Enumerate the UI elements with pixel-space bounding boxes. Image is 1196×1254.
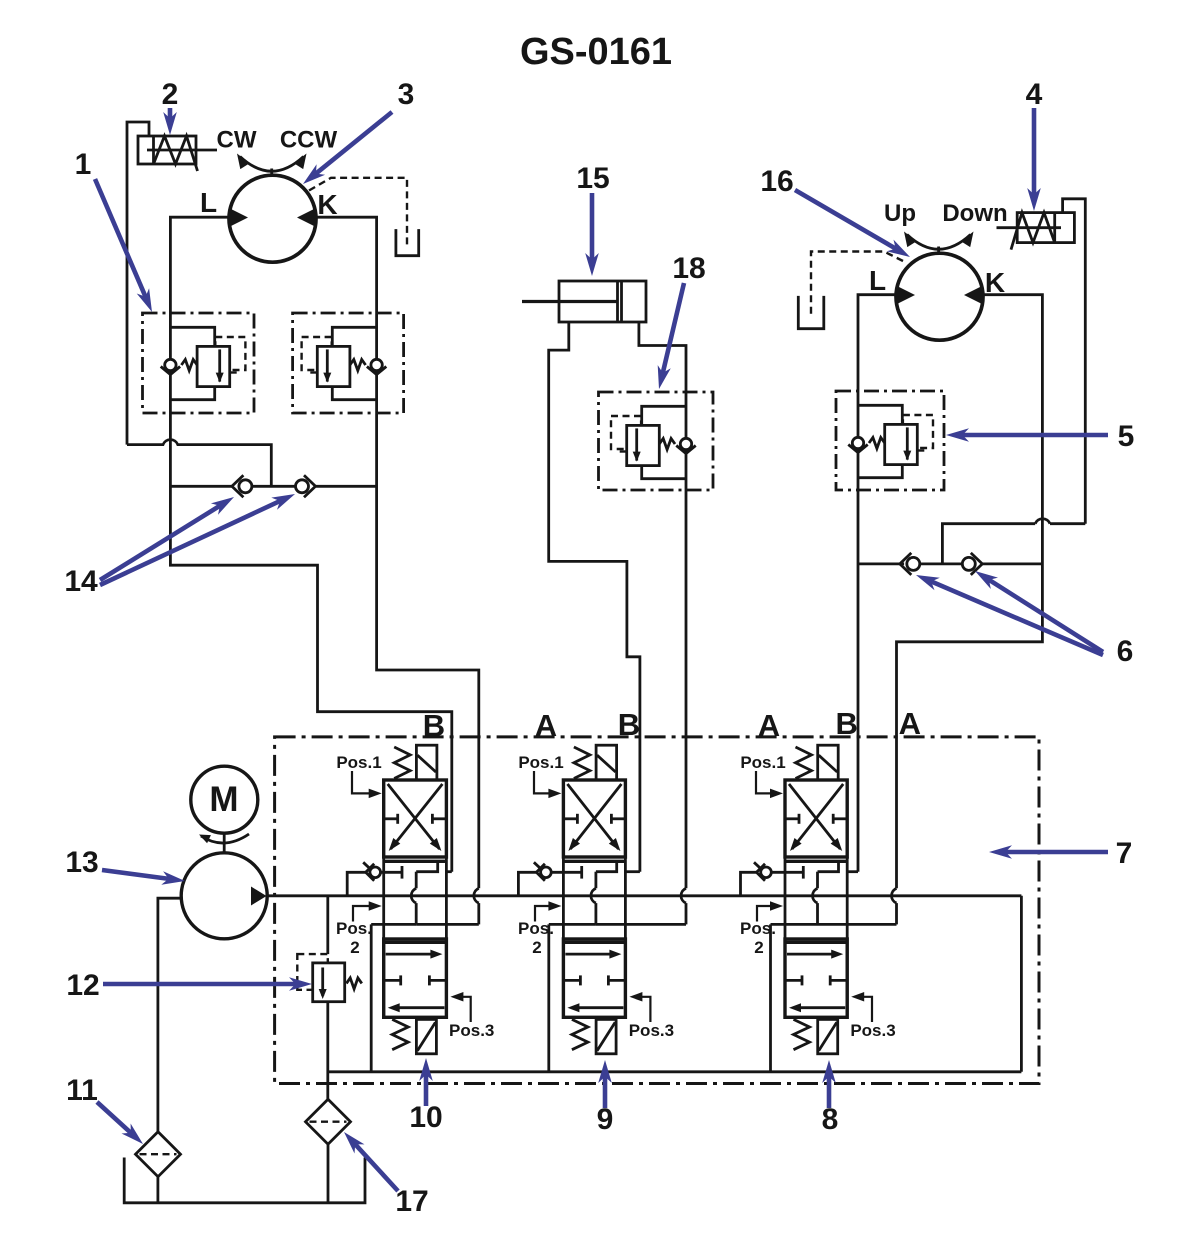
valve DV1 pilot check valve bbox=[347, 862, 402, 896]
svg-text:2: 2 bbox=[532, 938, 541, 957]
filter 17 bbox=[306, 1099, 351, 1144]
svg-text:Pos.3: Pos.3 bbox=[850, 1021, 895, 1040]
valve DV2 wire hop over bus bbox=[681, 888, 686, 924]
wire filter 11 to tank bbox=[156, 1177, 159, 1203]
valve DV1 solenoid (top) bbox=[416, 745, 437, 780]
motor 1 case drain (dashed) bbox=[309, 178, 407, 248]
wire left edge to makeup tee bbox=[127, 440, 271, 487]
motor 1 shaft stem bbox=[270, 169, 273, 177]
svg-text:17: 17 bbox=[395, 1185, 428, 1218]
relief valve 1a (L side) bbox=[161, 327, 246, 399]
svg-text:A: A bbox=[899, 706, 921, 741]
svg-text:16: 16 bbox=[760, 165, 793, 198]
shaft rotation arrow bbox=[199, 834, 249, 843]
label 15 bbox=[576, 162, 609, 195]
svg-text:GS-0161: GS-0161 bbox=[520, 31, 672, 73]
valve DV3 pilot check valve bbox=[741, 862, 804, 896]
label 12 bbox=[66, 969, 99, 1002]
label A port DV3 bbox=[899, 706, 921, 741]
check valve 14a bbox=[232, 475, 252, 497]
svg-text:12: 12 bbox=[66, 969, 99, 1002]
valve DV1 spring (bottom) bbox=[392, 1019, 408, 1049]
svg-text:4: 4 bbox=[1026, 78, 1043, 111]
valve DV1 wire hop over bus bbox=[474, 888, 479, 924]
relief valve 18 boundary (dash-dot) bbox=[599, 392, 714, 490]
pressure bus return leg bbox=[1020, 896, 1023, 1072]
relief 12 pilot box (dashed) bbox=[297, 954, 328, 990]
arrow to 17 bbox=[344, 1132, 398, 1191]
reservoir tank bbox=[124, 1158, 365, 1203]
hydraulic pump 13 bbox=[181, 853, 267, 939]
valve DV1 Pos.3 envelope bbox=[384, 939, 447, 1017]
label 6 bbox=[1117, 635, 1134, 668]
wire solenoid 4 drain bbox=[1063, 199, 1086, 524]
svg-text:A: A bbox=[535, 708, 557, 743]
svg-text:Pos.3: Pos.3 bbox=[449, 1021, 494, 1040]
valve DV3 wire hop over bus bbox=[892, 888, 897, 924]
label B port DV3 bbox=[836, 706, 858, 741]
wire check 6b to K line bbox=[983, 563, 1043, 566]
svg-text:Up: Up bbox=[884, 200, 916, 227]
valve DV3 Pos.3 flow arrows and marks bbox=[785, 950, 847, 1013]
svg-text:A: A bbox=[758, 708, 780, 743]
pump shaft bbox=[223, 833, 226, 852]
valve DV2 spring (bottom) bbox=[572, 1019, 588, 1049]
svg-text:2: 2 bbox=[754, 938, 763, 957]
relief valve block 1 right boundary (dash-dot) bbox=[293, 313, 404, 413]
label 10 bbox=[409, 1101, 442, 1134]
arrow to 16 bbox=[795, 190, 910, 257]
valve DV2 Pos.3 flow arrows and marks bbox=[563, 950, 625, 1013]
check valve 14b bbox=[296, 475, 316, 497]
valve DV1 internal passage Pos.2 bbox=[411, 861, 437, 924]
valve DV3 spring (bottom) bbox=[794, 1019, 810, 1049]
svg-text:Pos.3: Pos.3 bbox=[629, 1021, 674, 1040]
valve DV3 drain line to tank bus bbox=[771, 924, 897, 1071]
wire motor1 K port to valve DV1 bbox=[315, 217, 479, 888]
tank symbol T2 bbox=[798, 296, 824, 329]
svg-text:Down: Down bbox=[942, 200, 1007, 227]
solenoid valve 2 (motor 1 control) bbox=[138, 136, 217, 171]
valve DV3 solenoid (bottom) bbox=[818, 1019, 838, 1053]
wire motor2 K port to valve DV3 bbox=[897, 295, 1043, 889]
motor 2 case drain (dashed) bbox=[811, 252, 903, 316]
label B port DV1 bbox=[423, 708, 445, 743]
svg-text:CW: CW bbox=[217, 127, 257, 154]
svg-text:7: 7 bbox=[1116, 837, 1133, 870]
label CCW bbox=[280, 127, 338, 154]
wire cylinder head end to valve DV2 B bbox=[549, 322, 640, 872]
svg-text:CCW: CCW bbox=[280, 127, 338, 154]
arrow to 7 bbox=[989, 845, 1108, 859]
valve DV1 Pos.3 flow arrows and marks bbox=[384, 950, 447, 1013]
relief valve 1b (K side) bbox=[302, 327, 387, 399]
wire hop over K line (6 area) bbox=[1035, 519, 1050, 524]
wire between check valves 6 bbox=[920, 563, 961, 566]
valve DV3 closed port marks Pos.1 bbox=[785, 814, 847, 824]
hydraulic cylinder 15 bbox=[522, 281, 646, 322]
filter 11 bbox=[136, 1132, 181, 1177]
svg-text:3: 3 bbox=[398, 78, 415, 111]
valve DV1 crossed flow arrows bbox=[388, 784, 443, 851]
svg-text:Pos.1: Pos.1 bbox=[518, 753, 563, 772]
check valve 6b bbox=[962, 553, 982, 575]
svg-text:11: 11 bbox=[66, 1074, 98, 1107]
arrow to 14 (check 14b) bbox=[100, 494, 295, 585]
valve DV1 drain line to tank bus bbox=[371, 924, 479, 1071]
arrow to 2 bbox=[163, 108, 177, 135]
svg-text:14: 14 bbox=[64, 565, 98, 598]
label Down bbox=[942, 200, 1007, 227]
motor 2 port K triangle bbox=[964, 286, 982, 304]
arrow to 11 bbox=[97, 1102, 143, 1144]
svg-text:15: 15 bbox=[576, 162, 609, 195]
svg-text:L: L bbox=[869, 265, 886, 296]
arrow to 12 bbox=[103, 977, 312, 991]
label L motor 2 bbox=[869, 265, 886, 296]
valve DV2 solenoid (bottom) bbox=[596, 1019, 616, 1053]
relief valve block 1 boundary (dash-dot) bbox=[143, 313, 255, 413]
valve DV3 Pos.1 envelope bbox=[785, 780, 847, 861]
relief valve 5 boundary (dash-dot) bbox=[836, 391, 944, 490]
svg-text:B: B bbox=[423, 708, 445, 743]
svg-text:2: 2 bbox=[162, 78, 179, 111]
valve DV2 pilot check valve bbox=[518, 862, 581, 896]
wire between check valves 14 bbox=[253, 485, 295, 488]
label 13 bbox=[65, 846, 98, 879]
label 2 bbox=[162, 78, 179, 111]
svg-text:18: 18 bbox=[672, 252, 705, 285]
valve DV1 closed port marks Pos.1 bbox=[384, 814, 447, 824]
electric motor M bbox=[191, 766, 258, 833]
label 1 bbox=[75, 148, 92, 181]
label 14 bbox=[64, 565, 98, 598]
arrow to 18 bbox=[658, 283, 684, 389]
pressure bus from pump bbox=[267, 894, 1022, 897]
label A port DV1 bbox=[535, 708, 557, 743]
valve DV3 spring (top) bbox=[796, 747, 812, 779]
wire makeup line 6 left bbox=[858, 563, 904, 566]
svg-text:6: 6 bbox=[1117, 635, 1134, 668]
valve DV3 labels Pos.1 Pos.2 Pos.3 bbox=[740, 753, 896, 1040]
valve manifold boundary 7 (dash-dot) bbox=[275, 737, 1039, 1084]
svg-text:13: 13 bbox=[65, 846, 98, 879]
valve DV1 labels Pos.1 Pos.2 Pos.3 bbox=[336, 753, 494, 1040]
valve DV2 internal passage Pos.2 bbox=[591, 861, 617, 924]
wire cylinder rod end to valve DV2 bbox=[639, 322, 686, 888]
solenoid valve 4 (motor 2 control) bbox=[997, 213, 1075, 250]
relief valve 18 bbox=[611, 406, 696, 478]
valve DV1 wire B port connect bbox=[446, 870, 451, 873]
arrow to 14 (check 14a) bbox=[100, 497, 234, 580]
arrow to 15 bbox=[585, 193, 599, 276]
label Up bbox=[884, 200, 916, 227]
label 8 bbox=[822, 1103, 839, 1136]
label 11 bbox=[66, 1074, 98, 1107]
valve DV2 crossed flow arrows bbox=[567, 784, 621, 851]
label 7 bbox=[1116, 837, 1133, 870]
arrow to 10 bbox=[419, 1058, 433, 1106]
check valve 6a bbox=[900, 553, 920, 575]
valve DV3 solenoid (top) bbox=[818, 745, 839, 780]
tank symbol T1 bbox=[396, 229, 419, 256]
wire bus to relief 12 bbox=[326, 896, 329, 954]
label 3 bbox=[398, 78, 415, 111]
pump outlet triangle bbox=[251, 887, 267, 906]
wire solenoid 2 to left edge bbox=[127, 122, 149, 445]
valve DV1 valve body edges bbox=[384, 857, 447, 1017]
valve DV3 Pos.3 envelope bbox=[785, 939, 847, 1017]
arrow to 3 bbox=[303, 112, 392, 184]
hydraulic motor 16 (Up/Down) bbox=[896, 253, 983, 340]
motor 1 rotation arrows bbox=[237, 154, 307, 172]
arrow to 5 bbox=[946, 428, 1108, 442]
label 16 bbox=[760, 165, 793, 198]
motor 1 port L triangle bbox=[230, 209, 248, 227]
svg-text:B: B bbox=[618, 707, 640, 742]
motor 1 port K triangle bbox=[297, 209, 315, 227]
valve DV2 drain line to tank bus bbox=[549, 924, 686, 1071]
svg-text:L: L bbox=[200, 187, 217, 218]
svg-text:B: B bbox=[836, 706, 858, 741]
svg-text:5: 5 bbox=[1118, 420, 1135, 453]
valve DV2 labels Pos.1 Pos.2 Pos.3 bbox=[518, 753, 674, 1040]
valve DV1 solenoid (bottom) bbox=[416, 1019, 436, 1053]
svg-text:Pos.1: Pos.1 bbox=[336, 753, 381, 772]
valve DV3 crossed flow arrows bbox=[789, 784, 843, 851]
label A port DV2 bbox=[758, 708, 780, 743]
valve DV2 closed port marks Pos.1 bbox=[563, 814, 625, 824]
valve DV2 wire B port connect bbox=[625, 870, 640, 873]
valve DV1 Pos.1 envelope bbox=[384, 780, 447, 861]
svg-text:Pos.: Pos. bbox=[740, 919, 776, 938]
label 18 bbox=[672, 252, 705, 285]
label L motor 1 bbox=[200, 187, 217, 218]
label CW bbox=[217, 127, 257, 154]
valve DV2 Pos.3 envelope bbox=[563, 939, 625, 1017]
wire makeup line 14 bbox=[170, 485, 232, 488]
wire motor2 L port to valve DV3 B bbox=[858, 295, 897, 872]
arrow to 13 bbox=[102, 870, 185, 885]
label K motor 2 bbox=[985, 267, 1005, 298]
valve DV2 spring (top) bbox=[574, 747, 590, 779]
hydraulic motor 3 (CW/CCW) bbox=[229, 175, 316, 262]
label K motor 1 bbox=[317, 189, 337, 220]
relief valve 5 bbox=[848, 405, 933, 477]
wire relief 12 drain bbox=[326, 1002, 329, 1100]
valve DV3 internal passage Pos.2 bbox=[813, 861, 839, 924]
arrow to 4 bbox=[1027, 108, 1041, 211]
valve DV2 solenoid (top) bbox=[596, 745, 617, 780]
svg-text:M: M bbox=[209, 780, 238, 819]
relief valve 12 bbox=[313, 963, 362, 1002]
wire motor1 L port to valve DV1 B bbox=[170, 217, 451, 872]
motor 2 port L triangle bbox=[897, 286, 915, 304]
arrow to 8 bbox=[822, 1060, 836, 1108]
svg-text:2: 2 bbox=[350, 938, 359, 957]
valve DV3 valve body edges bbox=[785, 857, 847, 1017]
svg-text:Pos.: Pos. bbox=[518, 919, 554, 938]
valve DV1 spring (top) bbox=[394, 747, 410, 779]
arrow to 6 (check 6b) bbox=[975, 571, 1103, 652]
arrow to 1 bbox=[95, 179, 152, 312]
wire check 14b to K line bbox=[316, 485, 377, 488]
tank return bus bbox=[328, 1070, 1022, 1073]
label 5 bbox=[1118, 420, 1135, 453]
svg-text:1: 1 bbox=[75, 148, 92, 181]
label B port DV2 bbox=[618, 707, 640, 742]
title GS-0161 bbox=[520, 31, 672, 73]
wire filter 17 to tank bbox=[327, 1144, 330, 1203]
valve DV3 wire B port connect bbox=[847, 870, 858, 873]
svg-text:Pos.: Pos. bbox=[336, 919, 372, 938]
valve DV2 Pos.1 envelope bbox=[563, 780, 625, 861]
wire solenoid4 drain to tee bbox=[942, 524, 1085, 564]
valve DV2 valve body edges bbox=[563, 857, 625, 1017]
label 4 bbox=[1026, 78, 1043, 111]
arrow to 9 bbox=[598, 1060, 612, 1108]
svg-text:K: K bbox=[317, 189, 337, 220]
label 9 bbox=[597, 1103, 614, 1136]
arrow to 6 (check 6a) bbox=[916, 575, 1103, 655]
motor 2 shaft stem bbox=[937, 247, 940, 255]
pump suction line bbox=[158, 898, 182, 1132]
motor 2 rotation arrows bbox=[904, 232, 974, 250]
svg-text:Pos.1: Pos.1 bbox=[740, 753, 785, 772]
label 17 bbox=[395, 1185, 428, 1218]
